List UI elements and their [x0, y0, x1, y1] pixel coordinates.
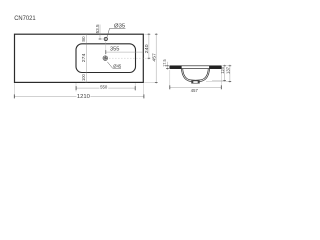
svg-text:355: 355: [110, 46, 120, 52]
svg-text:240: 240: [144, 44, 150, 53]
svg-text:80: 80: [81, 36, 86, 42]
svg-text:100: 100: [81, 74, 86, 81]
svg-text:457: 457: [191, 88, 198, 93]
svg-text:53.5: 53.5: [95, 24, 100, 34]
svg-text:Ø45: Ø45: [113, 63, 121, 69]
svg-text:17.5: 17.5: [162, 59, 167, 67]
svg-text:1210: 1210: [77, 94, 90, 100]
svg-text:457: 457: [152, 53, 157, 62]
svg-text:120: 120: [220, 66, 225, 74]
svg-text:137: 137: [225, 66, 230, 74]
svg-text:274: 274: [81, 53, 86, 62]
svg-text:550: 550: [100, 85, 107, 91]
svg-text:CN7021: CN7021: [14, 15, 36, 22]
